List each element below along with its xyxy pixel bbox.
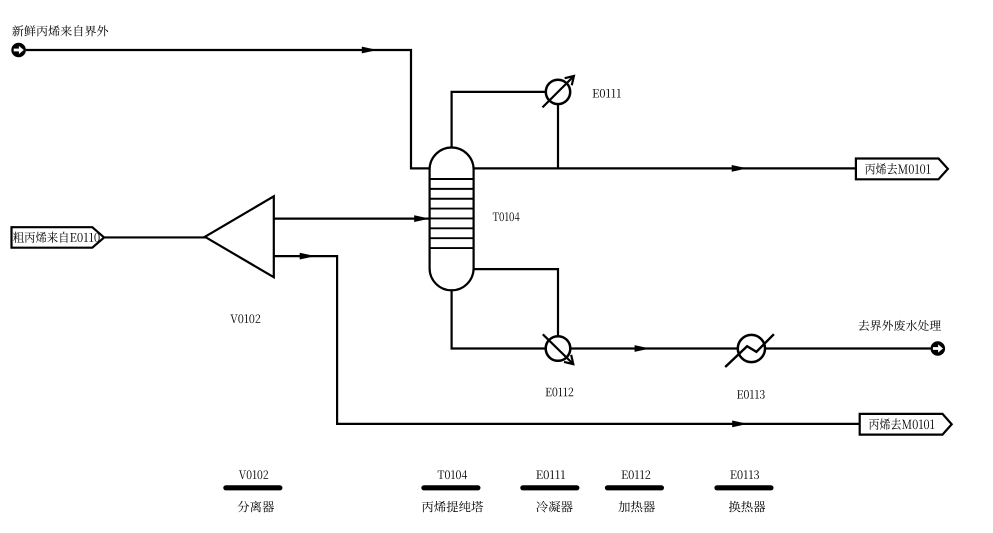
legend code E0112 <box>622 470 651 479</box>
arrow on fresh feed <box>362 47 378 54</box>
label 新鲜丙烯来自界外 <box>12 25 108 36</box>
node battery-limit source (fresh propylene) <box>11 43 26 58</box>
heater E0112 circle <box>546 336 571 361</box>
node battery-limit end (waste water) <box>931 341 946 356</box>
wire E0113 to battery limit <box>765 347 931 349</box>
wire column bottoms <box>452 289 546 348</box>
E0111 diagonal arrow <box>543 76 574 107</box>
wire crude propylene <box>104 236 206 238</box>
separator V0102 <box>205 196 274 277</box>
wire V0102 bottom recycle <box>274 256 861 424</box>
stream banner 丙烯去M0101 (top) <box>856 159 948 180</box>
column T0104 shell <box>430 148 474 291</box>
wire side draw to E0112 top <box>474 269 558 336</box>
legend name 冷凝器 <box>536 501 572 513</box>
label 粗丙烯来自E0110 <box>13 232 100 243</box>
legend code E0113 <box>730 470 759 479</box>
legend bar V0102 <box>226 485 280 490</box>
label 丙烯去M0101 bottom <box>869 418 934 429</box>
wire E0111 to product line <box>557 104 559 168</box>
arrow on recycle horizontal <box>300 253 316 260</box>
legend bar E0112 <box>607 485 661 490</box>
label 丙烯去M0101 top <box>865 163 930 174</box>
legend code E0111 <box>536 470 565 479</box>
label V0102 <box>230 314 260 323</box>
arrow before bottom banner <box>732 421 748 428</box>
arrow after E0112 <box>635 345 651 352</box>
stream banner 丙烯去M0101 (bottom) <box>860 414 952 435</box>
label T0104 <box>493 212 520 221</box>
E0112 diagonal arrow <box>543 334 574 364</box>
E0113 coil <box>725 334 774 367</box>
condenser E0111 circle <box>546 80 570 104</box>
label E0113 <box>737 390 765 399</box>
arrow into column <box>414 215 430 222</box>
legend name 换热器 <box>729 501 765 512</box>
label 去界外废水处理 <box>858 320 941 331</box>
legend name 丙烯提纯塔 <box>422 501 483 512</box>
wire column top to E0111 <box>452 92 546 149</box>
wire E0112 to E0113 <box>570 347 738 349</box>
legend bar T0104 <box>424 485 478 490</box>
exchanger E0113 circle <box>738 335 765 362</box>
legend name 分离器 <box>238 501 275 513</box>
wire V0102 to column feed <box>274 218 430 220</box>
label E0112 <box>546 388 574 397</box>
wire fresh propylene feed <box>26 50 430 168</box>
wire top product <box>474 167 857 169</box>
arrow on top product <box>732 165 748 172</box>
legend code T0104 <box>438 470 467 479</box>
legend bar E0113 <box>717 485 771 490</box>
stream banner 粗丙烯来自E0110 <box>12 227 105 248</box>
legend code V0102 <box>239 470 268 479</box>
label E0111 <box>593 89 621 98</box>
legend bar E0111 <box>523 485 577 490</box>
column T0104 trays <box>430 178 474 180</box>
legend name 加热器 <box>618 501 655 512</box>
